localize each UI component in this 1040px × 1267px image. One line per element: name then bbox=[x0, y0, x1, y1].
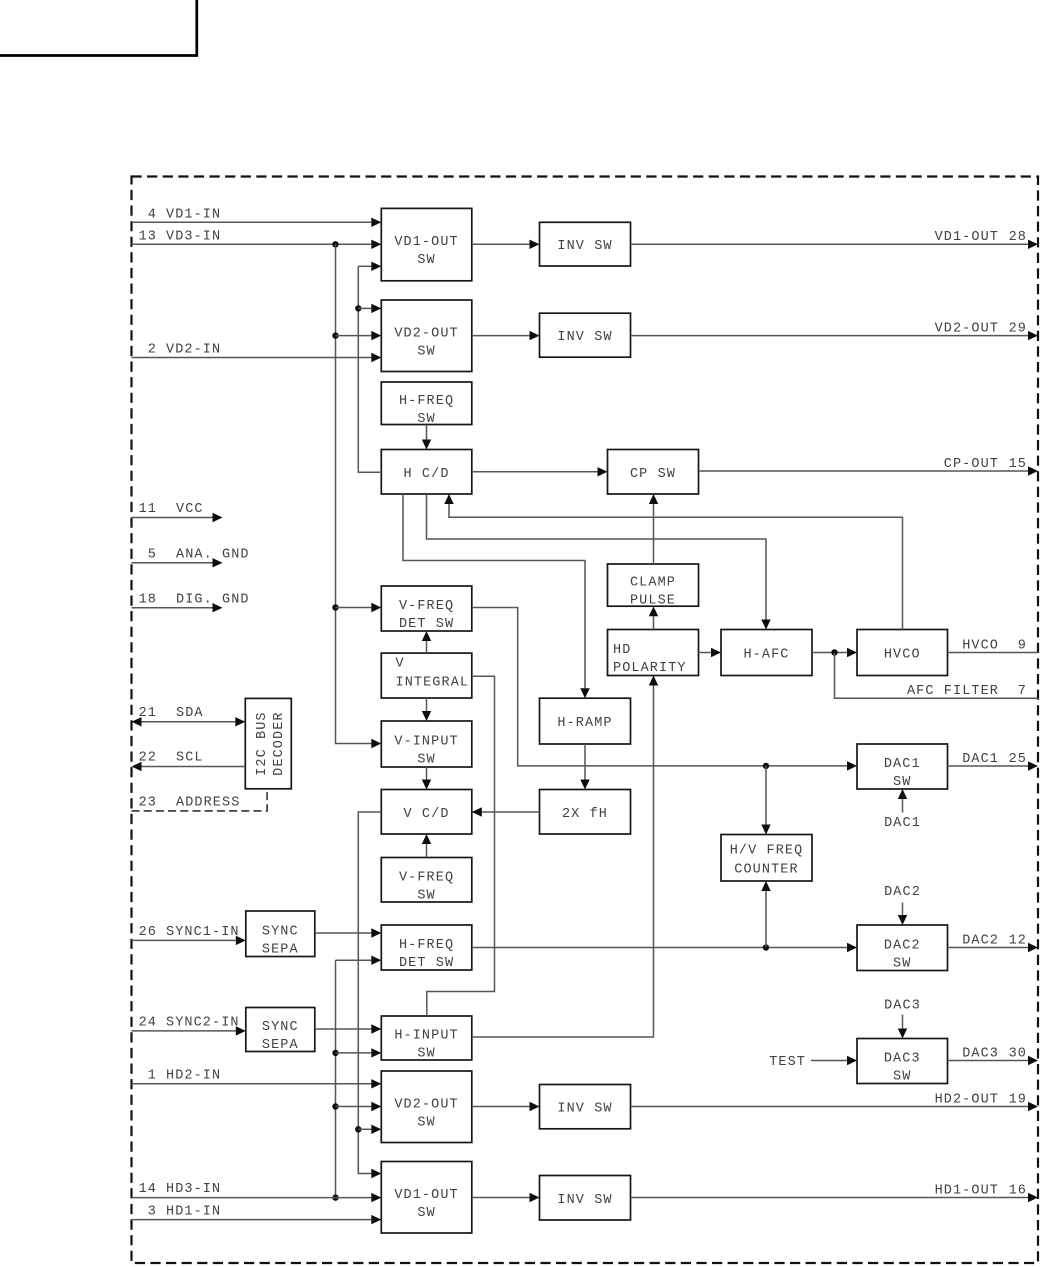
wire branch to H/V FREQ COUNTER bottom bbox=[765, 891, 767, 948]
wire INV SW to pin HD2-OUT 19 bbox=[631, 1106, 1029, 1108]
svg-text:INV SW: INV SW bbox=[557, 1102, 612, 1117]
svg-text:H-AFC: H-AFC bbox=[743, 648, 789, 663]
svg-text:SW: SW bbox=[417, 1047, 435, 1062]
wire VD3-IN to VD1-OUT SW bbox=[132, 243, 372, 245]
svg-text:HD: HD bbox=[613, 643, 631, 658]
wire H-FREQ SW to H C/D bbox=[426, 425, 428, 440]
wire H-FREQ DET SW to DAC2 SW bbox=[472, 947, 847, 949]
svg-text:SW: SW bbox=[417, 1115, 435, 1130]
wire HD3 bus to H-FREQ DET SW input 2 bbox=[336, 959, 372, 961]
wire INV SW to pin VD1-OUT 28 bbox=[631, 243, 1029, 245]
block SYNC SEPA (SYNC1) bbox=[246, 911, 315, 957]
wire CLAMP PULSE to CP SW bbox=[653, 504, 655, 564]
wire HVCO to pin 9 bbox=[948, 652, 1039, 654]
svg-text:VD2-OUT: VD2-OUT bbox=[394, 326, 458, 341]
svg-text:SW: SW bbox=[417, 753, 435, 768]
svg-text:I2C BUS: I2C BUS bbox=[255, 711, 270, 775]
wire H-AFC to HVCO bbox=[812, 652, 847, 654]
wire VD2-IN to VD2-OUT SW input 3 bbox=[132, 357, 372, 359]
block H-RAMP bbox=[540, 698, 631, 744]
svg-text:AFC FILTER: AFC FILTER bbox=[907, 684, 999, 699]
wire VD3 bus to V-FREQ DET SW input bbox=[336, 607, 372, 609]
junction HD3 bus on HD3-IN line bbox=[332, 1194, 338, 1200]
svg-text:DAC3: DAC3 bbox=[962, 1047, 999, 1062]
block DAC3 SW bbox=[857, 1039, 948, 1085]
svg-text:VD1-OUT: VD1-OUT bbox=[394, 1188, 458, 1203]
svg-text:13: 13 bbox=[139, 229, 157, 244]
wire H-INPUT SW to HD POLARITY bbox=[472, 686, 654, 1038]
wire V-INPUT SW to V C/D bbox=[426, 767, 428, 780]
block V INTEGRAL bbox=[381, 653, 472, 698]
svg-text:HD1-IN: HD1-IN bbox=[166, 1205, 221, 1220]
block H-AFC bbox=[721, 630, 812, 676]
svg-text:INTEGRAL: INTEGRAL bbox=[396, 676, 470, 691]
svg-text:H/V FREQ: H/V FREQ bbox=[730, 844, 804, 859]
wire HD3 bus vertical (bottom) bbox=[335, 960, 337, 1197]
svg-text:HD2-IN: HD2-IN bbox=[166, 1069, 221, 1084]
block H/V FREQ COUNTER bbox=[721, 835, 812, 882]
wire SYNC SEPA to H-INPUT SW bbox=[315, 1028, 372, 1030]
svg-text:DAC2: DAC2 bbox=[884, 885, 921, 900]
svg-text:DAC1: DAC1 bbox=[884, 816, 921, 831]
svg-text:4: 4 bbox=[148, 207, 157, 222]
svg-text:CLAMP: CLAMP bbox=[630, 576, 676, 591]
wire SCL to pin bbox=[142, 766, 246, 768]
wire V INTEGRAL to V-INPUT SW bbox=[426, 698, 428, 711]
wire DAC1 node to DAC1 SW bbox=[902, 799, 904, 813]
svg-text:DAC2: DAC2 bbox=[884, 938, 921, 953]
junction VD3-IN bus bbox=[332, 241, 338, 247]
wire DAC3 node to DAC3 SW bbox=[902, 1015, 904, 1029]
svg-text:SDA: SDA bbox=[176, 706, 204, 721]
svg-text:V-FREQ: V-FREQ bbox=[399, 870, 454, 885]
wire HD POLARITY to CLAMP PULSE bbox=[653, 616, 655, 629]
svg-text:VCC: VCC bbox=[176, 502, 204, 517]
wire HD2-IN to VD2-OUT SW (bottom) bbox=[132, 1083, 372, 1085]
wire HVCO to H C/D feedback bbox=[449, 504, 903, 630]
wire H C/D feedback vertical (top) bbox=[358, 266, 381, 472]
svg-text:VD1-OUT: VD1-OUT bbox=[935, 230, 999, 245]
svg-text:SW: SW bbox=[417, 1206, 435, 1221]
junction DAC1 feed to H/V FREQ COUNTER bbox=[763, 763, 769, 769]
svg-text:2X fH: 2X fH bbox=[562, 807, 608, 822]
block INV SW (HD2 row) bbox=[540, 1085, 631, 1129]
wire V-FREQ SW to V C/D bbox=[426, 844, 428, 858]
svg-text:DET SW: DET SW bbox=[399, 956, 454, 971]
svg-text:25: 25 bbox=[1009, 752, 1027, 767]
block I2C BUS DECODER bbox=[245, 698, 291, 788]
wire SYNC1-IN to SYNC SEPA bbox=[132, 939, 236, 941]
svg-text:16: 16 bbox=[1009, 1184, 1027, 1199]
svg-text:H-FREQ: H-FREQ bbox=[399, 394, 454, 409]
svg-text:SYNC: SYNC bbox=[262, 1020, 299, 1035]
block 2X fH bbox=[540, 790, 631, 835]
wire INV SW to pin VD2-OUT 29 bbox=[631, 335, 1029, 337]
block H-FREQ DET SW bbox=[381, 925, 472, 971]
wire DAC2 node to DAC2 SW bbox=[902, 903, 904, 916]
wire branch to VD2-OUT SW (bottom) input 3 bbox=[358, 1128, 371, 1130]
block VD1-OUT SW (top) bbox=[381, 208, 472, 280]
svg-text:V-FREQ: V-FREQ bbox=[399, 599, 454, 614]
junction H C/D feedback to VD2-OUT SW bbox=[355, 305, 361, 311]
svg-text:DAC1: DAC1 bbox=[962, 752, 999, 767]
wire TEST to DAC3 SW bbox=[811, 1060, 847, 1062]
svg-text:18: 18 bbox=[139, 593, 157, 608]
svg-text:SW: SW bbox=[417, 253, 435, 268]
wire HD1-IN to VD1-OUT SW (bottom) bbox=[132, 1219, 372, 1221]
wire AFC FILTER to pin 7 bbox=[835, 653, 1039, 699]
block VD1-OUT SW (bottom) bbox=[381, 1162, 472, 1234]
wire VD1-OUT SW to INV SW bbox=[472, 243, 530, 245]
svg-text:TEST: TEST bbox=[769, 1055, 806, 1070]
svg-text:DET SW: DET SW bbox=[399, 617, 454, 632]
block SYNC SEPA (SYNC2) bbox=[246, 1008, 315, 1054]
svg-text:HVCO: HVCO bbox=[962, 639, 999, 654]
svg-text:DAC1: DAC1 bbox=[884, 757, 921, 772]
wire VD1-OUT SW (bottom) to INV SW bbox=[472, 1197, 530, 1199]
wire VD3 bus to VD2-OUT SW input 2 bbox=[336, 335, 372, 337]
junction VD3 bus to V-FREQ DET SW bbox=[332, 604, 338, 610]
svg-text:24: 24 bbox=[139, 1016, 157, 1031]
svg-text:SW: SW bbox=[893, 1070, 911, 1085]
wire DAC1 SW to pin 25 bbox=[948, 765, 1029, 767]
block INV SW (VD1 row) bbox=[540, 222, 631, 266]
svg-text:DAC3: DAC3 bbox=[884, 999, 921, 1014]
svg-text:HD1-OUT: HD1-OUT bbox=[935, 1184, 999, 1199]
svg-text:VD2-OUT: VD2-OUT bbox=[394, 1097, 458, 1112]
svg-text:1: 1 bbox=[148, 1069, 157, 1084]
svg-text:SW: SW bbox=[893, 956, 911, 971]
svg-text:VD3-IN: VD3-IN bbox=[166, 229, 221, 244]
wire INV SW to pin HD1-OUT 16 bbox=[631, 1197, 1029, 1199]
svg-text:H-FREQ: H-FREQ bbox=[399, 938, 454, 953]
svg-text:7: 7 bbox=[1018, 684, 1027, 699]
svg-text:PULSE: PULSE bbox=[630, 594, 676, 609]
svg-text:COUNTER: COUNTER bbox=[734, 863, 798, 878]
svg-text:DECODER: DECODER bbox=[272, 711, 287, 775]
block H C/D bbox=[381, 450, 472, 495]
junction VD3 bus to VD2-OUT SW bbox=[332, 332, 338, 338]
svg-text:DAC2: DAC2 bbox=[962, 934, 999, 949]
block V-FREQ DET SW bbox=[381, 586, 472, 632]
svg-text:23: 23 bbox=[139, 796, 157, 811]
svg-text:H C/D: H C/D bbox=[404, 467, 450, 482]
svg-text:V C/D: V C/D bbox=[404, 807, 450, 822]
svg-text:26: 26 bbox=[139, 925, 157, 940]
wire VD3-IN bus vertical (to V-INPUT SW) bbox=[336, 244, 372, 743]
block V-INPUT SW bbox=[381, 721, 472, 768]
wire DAC3 SW to pin 30 bbox=[948, 1060, 1029, 1062]
svg-text:V-INPUT: V-INPUT bbox=[394, 735, 458, 750]
block HD POLARITY bbox=[608, 630, 699, 677]
block V C/D bbox=[381, 790, 472, 835]
wire branch to H/V FREQ COUNTER top bbox=[765, 766, 767, 825]
svg-text:30: 30 bbox=[1009, 1047, 1027, 1062]
wire HD3-IN to VD1-OUT SW (bottom) bbox=[132, 1197, 372, 1199]
wire VD2-OUT SW (bottom) to INV SW bbox=[472, 1106, 530, 1108]
wire SYNC2-IN to SYNC SEPA bbox=[132, 1030, 236, 1032]
svg-text:SYNC2-IN: SYNC2-IN bbox=[166, 1016, 240, 1031]
wire V INTEGRAL to V-FREQ DET SW bbox=[426, 641, 428, 653]
svg-text:VD1-OUT: VD1-OUT bbox=[394, 235, 458, 250]
svg-text:19: 19 bbox=[1009, 1093, 1027, 1108]
junction H-AFC output / AFC FILTER bbox=[831, 649, 837, 655]
svg-text:CP SW: CP SW bbox=[630, 467, 676, 482]
wire H C/D to H-AFC bbox=[427, 494, 767, 620]
IC boundary (dashed border) bbox=[132, 177, 1039, 1264]
svg-text:VD2-IN: VD2-IN bbox=[166, 343, 221, 358]
svg-text:ADDRESS: ADDRESS bbox=[176, 796, 240, 811]
block HVCO bbox=[857, 630, 948, 676]
svg-text:29: 29 bbox=[1009, 322, 1027, 337]
wire H C/D to CP SW bbox=[472, 471, 598, 473]
junction V C/D feed to VD2-OUT SW (bottom) bbox=[355, 1126, 361, 1132]
svg-text:SEPA: SEPA bbox=[262, 1038, 299, 1053]
block H-FREQ SW bbox=[381, 382, 472, 427]
svg-text:DAC3: DAC3 bbox=[884, 1052, 921, 1067]
svg-text:SYNC1-IN: SYNC1-IN bbox=[166, 925, 240, 940]
svg-text:3: 3 bbox=[148, 1205, 157, 1220]
block CLAMP PULSE bbox=[608, 564, 699, 609]
svg-text:2: 2 bbox=[148, 343, 157, 358]
svg-text:CP-OUT: CP-OUT bbox=[944, 457, 999, 472]
wire 2X fH to V C/D bbox=[482, 811, 540, 813]
svg-text:H-RAMP: H-RAMP bbox=[557, 716, 612, 731]
svg-text:11: 11 bbox=[139, 502, 157, 517]
svg-text:POLARITY: POLARITY bbox=[613, 661, 687, 676]
block DAC1 SW bbox=[857, 744, 948, 790]
svg-text:SYNC: SYNC bbox=[262, 924, 299, 939]
wire VCC pin stub bbox=[132, 517, 213, 519]
svg-text:VD2-OUT: VD2-OUT bbox=[935, 322, 999, 337]
svg-text:9: 9 bbox=[1018, 639, 1027, 654]
wire H-RAMP to 2X fH bbox=[584, 744, 586, 780]
wire V-FREQ DET SW to DAC1 SW bbox=[472, 608, 847, 766]
svg-text:12: 12 bbox=[1009, 934, 1027, 949]
wire SYNC SEPA to H-FREQ DET SW bbox=[315, 932, 372, 934]
svg-text:28: 28 bbox=[1009, 230, 1027, 245]
block V-FREQ SW bbox=[381, 858, 472, 904]
block VD2-OUT SW (top) bbox=[381, 300, 472, 372]
svg-text:INV SW: INV SW bbox=[557, 1193, 612, 1208]
wire SDA bidirectional bbox=[142, 721, 236, 723]
svg-text:SW: SW bbox=[417, 344, 435, 359]
svg-text:SW: SW bbox=[417, 888, 435, 903]
wire V C/D to bottom switches bbox=[358, 812, 381, 1174]
wire V INTEGRAL to H-INPUT SW bbox=[427, 676, 495, 1016]
svg-text:HVCO: HVCO bbox=[884, 648, 921, 663]
svg-text:SEPA: SEPA bbox=[262, 942, 299, 957]
junction HD3 bus to VD2-OUT SW (bottom) bbox=[332, 1103, 338, 1109]
svg-text:HD2-OUT: HD2-OUT bbox=[935, 1093, 999, 1108]
wire CP SW to pin CP-OUT 15 bbox=[699, 470, 1029, 472]
wire DIG. GND pin stub bbox=[132, 607, 213, 609]
block INV SW (VD2 row) bbox=[540, 313, 631, 357]
block DAC2 SW bbox=[857, 925, 948, 971]
top-left title-block tab (partial rectangle) bbox=[0, 0, 197, 56]
junction DAC2 feed to H/V FREQ COUNTER bbox=[763, 944, 769, 950]
svg-text:INV SW: INV SW bbox=[557, 330, 612, 345]
svg-text:14: 14 bbox=[139, 1182, 157, 1197]
wire H C/D to H-RAMP bbox=[403, 494, 585, 688]
wire branch to VD2-OUT SW input 1 bbox=[358, 307, 371, 309]
svg-text:5: 5 bbox=[148, 548, 157, 563]
wire ADDRESS dashed to I2C BUS DECODER bbox=[132, 789, 268, 811]
svg-text:15: 15 bbox=[1009, 457, 1027, 472]
svg-text:VD1-IN: VD1-IN bbox=[166, 207, 221, 222]
junction HD3 bus to H-INPUT SW bbox=[332, 1050, 338, 1056]
wire VD2-OUT SW to INV SW bbox=[472, 335, 530, 337]
wire VD1-IN to VD1-OUT SW bbox=[132, 221, 372, 223]
svg-text:SW: SW bbox=[893, 775, 911, 790]
svg-text:SCL: SCL bbox=[176, 751, 204, 766]
block H-INPUT SW bbox=[381, 1016, 472, 1062]
wire branch to H-INPUT SW input 2 bbox=[336, 1052, 372, 1054]
svg-text:V: V bbox=[396, 657, 405, 672]
svg-text:INV SW: INV SW bbox=[557, 239, 612, 254]
wire HD POLARITY to H-AFC bbox=[699, 652, 712, 654]
svg-text:H-INPUT: H-INPUT bbox=[394, 1029, 458, 1044]
wire DAC2 SW to pin 12 bbox=[948, 947, 1029, 949]
svg-text:HD3-IN: HD3-IN bbox=[166, 1182, 221, 1197]
wire branch to VD2-OUT SW (bottom) input 2 bbox=[336, 1106, 372, 1108]
block INV SW (HD1 row) bbox=[540, 1176, 631, 1221]
wire ANA. GND pin stub bbox=[132, 562, 213, 564]
wire branch to VD1-OUT SW input 3 bbox=[358, 265, 371, 267]
block VD2-OUT SW (bottom) bbox=[381, 1071, 472, 1143]
block CP SW bbox=[608, 450, 699, 495]
